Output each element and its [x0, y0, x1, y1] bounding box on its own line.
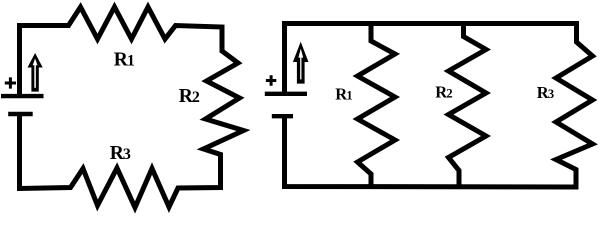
svg-text:R2: R2: [179, 86, 200, 107]
svg-text:R3: R3: [110, 143, 131, 164]
svg-text:R1: R1: [114, 50, 135, 71]
